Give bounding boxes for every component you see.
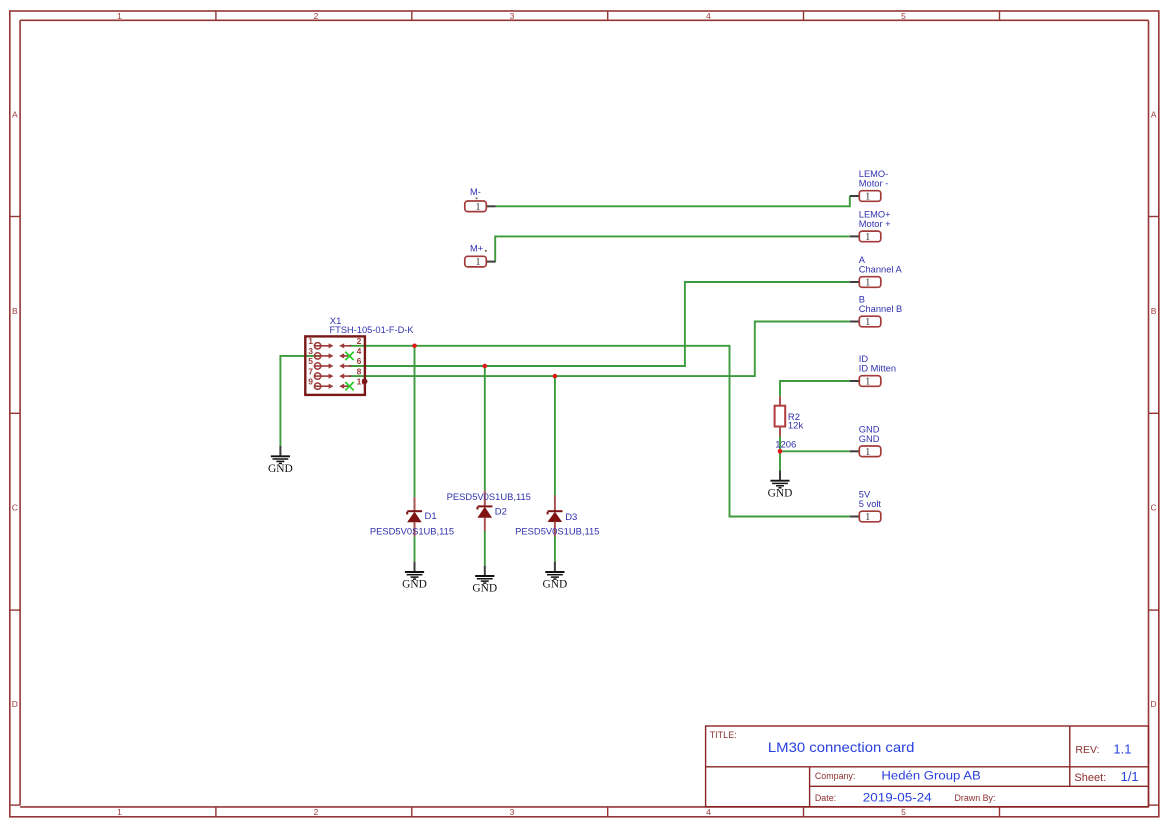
svg-text:1: 1 [476,202,481,213]
junction dot on 5V net at D1 [412,344,417,349]
svg-text:2019-05-24: 2019-05-24 [863,792,933,804]
text origin dot for M+ label [485,250,487,252]
frame column ticks bottom [216,807,1000,817]
svg-text:M+: M+ [470,244,483,254]
svg-text:D3: D3 [565,512,577,523]
title block REV column divider [1069,726,1071,786]
svg-text:2: 2 [314,11,319,21]
svg-text:D: D [1151,699,1157,709]
svg-text:C: C [12,503,18,513]
X1 pin 4 no-connect X mark [345,352,353,360]
X1 pin 10 no-connect X mark [345,382,353,390]
svg-text:ID: ID [859,354,869,364]
svg-text:Hedén Group AB: Hedén Group AB [881,771,981,783]
connection pad M+ [465,244,496,269]
title block sheet row divider [810,785,1149,787]
wire net M- : M- pad to LEMO- pad [496,196,850,206]
frame column numbers top [117,11,906,21]
svg-text:A: A [1151,110,1157,120]
svg-text:GND: GND [859,434,880,444]
junction dot on GND net at R2 bottom [778,449,783,454]
wire net GND junction to GND pad [780,450,850,452]
svg-text:8: 8 [357,366,362,376]
svg-text:M-: M- [470,187,481,197]
svg-text:Channel A: Channel A [859,265,903,275]
X1 pin 10 (right) [339,376,366,388]
svg-text:B: B [859,295,865,305]
svg-text:3: 3 [510,11,515,21]
connection pad LEMO+: labels LEMO+ / Motor + [850,209,891,243]
wire net A : X1 pin6 right, up, to Channel A pad [349,282,850,366]
schematic frame inner border left [19,20,21,805]
title block company column divider [809,767,811,807]
svg-text:C: C [1151,503,1157,513]
svg-text:PESD5V0S1UB,115: PESD5V0S1UB,115 [447,492,531,502]
diode D2 (PESD5V0S1UB,115 TVS) [477,491,507,531]
svg-text:D1: D1 [425,511,437,522]
frame row ticks left [10,217,20,611]
svg-text:4: 4 [357,346,362,356]
svg-text:1: 1 [865,278,870,289]
svg-text:Motor -: Motor - [859,179,888,189]
svg-text:B: B [1151,306,1157,316]
schematic frame inner border bottom [20,806,1148,808]
svg-text:LEMO+: LEMO+ [859,209,891,219]
svg-text:1: 1 [117,807,122,817]
wire net M+ : M+ pad up and across to LEMO+ pad [495,236,850,261]
X1 pin 7 (left) [308,366,333,379]
frame row letters left [12,110,18,710]
schematic frame inner border right [1148,20,1150,807]
svg-text:D2: D2 [495,506,507,517]
svg-text:GND: GND [268,463,293,475]
svg-text:GND: GND [768,487,793,499]
frame column numbers bottom [117,807,906,817]
X1 pin 5 (left) [308,356,333,369]
svg-text:1: 1 [117,11,122,21]
X1 pin 9 (left) [308,376,333,389]
X1 pin 6 (right) [339,356,361,368]
wire segments below diodes D1 D2 D3 to grounds [415,531,555,566]
X1 pin 4 (right) [339,346,361,358]
wire net ID-GND below R2 to junction and ground [779,436,781,471]
svg-text:5V: 5V [859,490,871,500]
ground X1-GND [268,446,293,475]
connection pad LEMO-: labels LEMO- / Motor - [850,169,888,203]
wire net GND from X1 pin3 left and down [280,356,321,446]
svg-text:4: 4 [706,807,711,817]
svg-text:4: 4 [706,11,711,21]
svg-text:Sheet:: Sheet: [1074,772,1106,784]
svg-text:1: 1 [865,447,870,458]
svg-text:2: 2 [314,807,319,817]
svg-text:1: 1 [308,336,313,346]
svg-text:Motor +: Motor + [859,219,891,229]
svg-text:1: 1 [865,232,870,243]
diode D1 (PESD5V0S1UB,115 TVS) [407,497,437,536]
connection pad 5V: labels 5V / 5 volt [850,490,882,524]
svg-text:Date:: Date: [815,793,836,803]
svg-text:2: 2 [357,336,362,346]
svg-text:Company:: Company: [815,771,855,781]
X1 dark dot on box edge at pin 10 [362,379,367,384]
svg-text:6: 6 [357,356,362,366]
frame column ticks top [216,11,1000,20]
junction dot on B net at D3 [553,374,558,379]
ground D1-GND [402,562,427,591]
connection pad ID: labels ID / ID Mitten [850,354,896,388]
wire net 5V : X1 pin2 right, down, to 5V pad [349,346,850,517]
X1 pin 1 (left) [308,336,333,349]
wire net B branch to D3 [554,376,556,495]
frame row letters right [1151,110,1157,710]
connection pad M- [465,187,496,213]
svg-text:7: 7 [308,366,313,376]
svg-text:5 volt: 5 volt [859,499,882,509]
svg-text:5: 5 [901,11,906,21]
svg-text:PESD5V0S1UB,115: PESD5V0S1UB,115 [515,527,599,537]
svg-text:LM30 connection card: LM30 connection card [768,739,915,755]
title block outline [706,726,1149,807]
svg-text:1/1: 1/1 [1121,769,1139,784]
connection pad GND: labels GND / GND [850,424,881,458]
svg-text:PESD5V0S1UB,115: PESD5V0S1UB,115 [370,527,454,537]
svg-text:5: 5 [308,356,313,366]
ground D3-GND [543,562,568,591]
svg-text:1206: 1206 [775,440,796,451]
wire net A branch to D2 [484,366,486,491]
wire net 5V branch to D1 [414,346,416,498]
frame corner tick bottom-right [1149,804,1159,806]
wire net B : X1 pin8 right, up, to Channel B pad [349,322,850,377]
svg-text:FTSH-105-01-F-D-K: FTSH-105-01-F-D-K [330,325,415,336]
junction dot on A net at D2 [483,364,488,369]
title block row divider under title [706,766,1149,768]
svg-text:GND: GND [859,424,880,434]
X1 pin 8 (right) [339,366,361,378]
svg-text:GND: GND [543,579,568,591]
svg-text:GND: GND [402,579,427,591]
svg-text:LEMO-: LEMO- [859,169,888,179]
connection pad A: labels A / Channel A [850,255,903,289]
svg-text:1: 1 [476,257,481,268]
svg-text:Drawn By:: Drawn By: [955,793,996,803]
svg-text:9: 9 [308,376,313,386]
svg-text:A: A [859,255,866,265]
svg-text:1: 1 [865,512,870,523]
svg-text:1: 1 [865,192,870,203]
X1 pin 2 (right) [339,336,361,348]
X1 pin 3 (left) [308,346,333,359]
svg-text:3: 3 [510,807,515,817]
resistor R2 12k 1206 [775,396,786,436]
svg-text:Channel B: Channel B [859,304,902,314]
svg-text:ID Mitten: ID Mitten [859,364,896,374]
schematic frame inner border top [20,19,1148,21]
frame corner tick bottom-left [10,804,20,806]
svg-text:A: A [12,110,18,120]
connector X1 FTSH-105-01-F-D-K box [305,336,365,395]
svg-text:1: 1 [865,377,870,388]
svg-text:TITLE:: TITLE: [710,730,737,740]
svg-text:GND: GND [472,583,497,595]
frame row ticks right [1149,217,1159,611]
svg-text:REV:: REV: [1075,744,1099,756]
svg-text:1: 1 [865,317,870,328]
text origin dot for M- label [476,197,478,199]
connection pad B: labels B / Channel B [850,295,902,329]
svg-text:B: B [12,306,18,316]
svg-text:1.1: 1.1 [1113,741,1131,756]
svg-text:D: D [12,699,18,709]
ground D2-GND [472,566,497,595]
svg-text:5: 5 [901,807,906,817]
wire net ID : ID pad left then down to R2 [780,381,850,396]
svg-text:3: 3 [308,346,313,356]
svg-text:12k: 12k [788,420,804,431]
ground R2-GND [768,470,793,499]
diode D3 (PESD5V0S1UB,115 TVS) [548,495,578,536]
